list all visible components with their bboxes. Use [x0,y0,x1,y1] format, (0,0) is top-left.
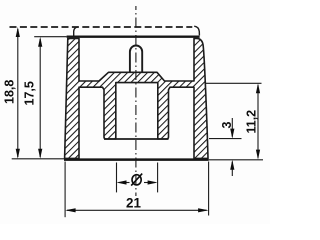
dimension 17.5: line and arrows [38,37,42,159]
svg-text:11,2: 11,2 [245,110,259,134]
dimension dia: line segments and arrows [117,180,158,184]
21 extension lines [64,162,66,218]
baseline extension right [209,159,263,161]
dimension 21: line and arrows [65,208,209,212]
dimension 11.2: extension line [206,82,262,84]
svg-text:18,8: 18,8 [3,80,17,104]
dimension 11.2: line and arrows [256,83,260,159]
cap left corner [74,27,78,36]
svg-text:21: 21 [126,195,141,210]
17.5 extension line (top face extended left) [34,36,66,38]
label dia symbol [131,174,142,186]
baseline extension left [12,158,64,160]
baseline (bottom of knob) [64,158,209,161]
shaft hole dia extension lines [116,163,118,193]
hub bottom extension right (for dim 3) [209,138,242,140]
hub bottom line (across shaft hole) [104,138,169,140]
svg-text:3: 3 [220,122,234,129]
centerline (axis, dash-dot) [135,6,137,196]
top face line [67,36,200,38]
svg-text:17,5: 17,5 [23,81,37,105]
knob body cross-section (hatched walls, deck, hub) [65,38,208,158]
dimension 18.8: line and arrows [16,27,20,159]
dashed cap outline (top) [10,26,193,28]
shaft-hole dome (blind hole top, white inside) [130,45,142,72]
dimension 3: lines and arrows (outside) [230,118,234,176]
cap right corner [194,26,199,35]
